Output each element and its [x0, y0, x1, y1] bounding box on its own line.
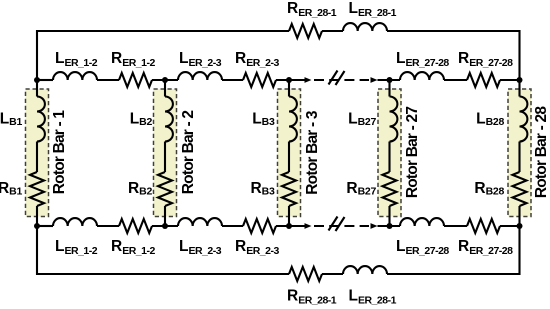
- svg-text:LB2: LB2: [130, 111, 153, 129]
- wire bottom rail: [500, 225, 520, 227]
- rotor bar 3 enclosure: [278, 89, 301, 217]
- svg-text:RER_28-1: RER_28-1: [287, 288, 337, 307]
- inductor L_ER_27-28 (bottom rail): [400, 218, 444, 226]
- resistor R_B3: [282, 172, 296, 206]
- wire top rail: [97, 79, 119, 81]
- node bar 2 bottom: [162, 223, 168, 229]
- node bar 28 top: [517, 77, 523, 83]
- wire bottom rail: [276, 225, 305, 227]
- rotor bar 2 enclosure: [154, 89, 177, 217]
- resistor R_B1: [30, 172, 44, 206]
- svg-text:LER_1-2: LER_1-2: [55, 50, 98, 69]
- wire rotor bar 1 middle: [36, 142, 38, 173]
- node bar 27 top: [387, 77, 393, 83]
- arrow bottom rail break left: [305, 223, 312, 229]
- svg-text:LB3: LB3: [252, 111, 275, 129]
- svg-text:LER_2-3: LER_2-3: [179, 50, 222, 69]
- inductor L_ER_27-28 (top rail): [400, 72, 444, 80]
- wire bottom rail: [152, 225, 178, 227]
- break marks bottom rail: [329, 217, 345, 232]
- wire rotor bar 2 middle: [164, 142, 166, 173]
- rotor bar 1 enclosure: [26, 89, 49, 217]
- inductor L_B3: [289, 97, 297, 142]
- svg-text:LER_27-28: LER_27-28: [396, 50, 449, 69]
- svg-text:RER_2-3: RER_2-3: [235, 238, 279, 257]
- node bar 1 bottom: [34, 223, 40, 229]
- inductor L_ER_2-3 (bottom rail): [178, 218, 222, 226]
- wire rotor bar 3 top lead: [288, 80, 290, 97]
- node bar 3 top: [286, 77, 292, 83]
- wire top rail node1 to L_ER_1-2: [37, 79, 53, 81]
- rotor bar 27 enclosure: [378, 89, 401, 217]
- svg-text:RB3: RB3: [250, 180, 274, 198]
- wire top rail to node 27: [378, 79, 401, 81]
- arrow bottom rail break right: [371, 223, 378, 229]
- resistor R_ER_28-1 (top outer): [289, 24, 322, 38]
- wire top outer: left vertical and top run: [37, 31, 289, 80]
- wire top outer: right run and right vertical: [387, 31, 520, 80]
- svg-text:RB28: RB28: [474, 180, 504, 198]
- svg-text:RER_1-2: RER_1-2: [111, 50, 155, 69]
- inductor L_B28: [520, 97, 528, 142]
- wire dashed top rail break: [314, 79, 369, 81]
- wire bottom rail: [97, 225, 119, 227]
- rotor bar 28 enclosure: [508, 89, 531, 217]
- svg-text:LER_27-28: LER_27-28: [396, 238, 449, 257]
- wire rotor bar 3 middle: [288, 142, 290, 173]
- wire top rail: [152, 79, 178, 81]
- resistor R_ER_27-28 (top rail): [467, 73, 500, 87]
- wire bottom outer: left vertical and bottom run: [37, 226, 289, 274]
- resistor R_ER_27-28 (bottom rail): [467, 219, 500, 233]
- arrow top rail break right: [371, 77, 378, 83]
- wire rotor bar 1 top lead: [36, 80, 38, 97]
- inductor L_B1: [37, 97, 45, 142]
- resistor R_ER_1-2 (bottom rail): [119, 219, 152, 233]
- wire bottom outer between resistor and inductor: [322, 273, 343, 275]
- svg-text:RER_1-2: RER_1-2: [111, 238, 155, 257]
- svg-text:RB27: RB27: [346, 180, 376, 198]
- svg-text:RER_28-1: RER_28-1: [287, 0, 337, 19]
- inductor L_ER_1-2 (bottom rail): [53, 218, 97, 226]
- wire bottom rail node1 to L_ER_1-2: [37, 225, 53, 227]
- wire top rail: [222, 79, 243, 81]
- break marks top rail: [329, 71, 345, 86]
- wire rotor bar 28 top lead: [518, 80, 520, 97]
- node bar 27 bottom: [387, 223, 393, 229]
- wire rotor bar 2 bottom lead: [164, 206, 166, 226]
- wire rotor bar 27 top lead: [388, 80, 390, 97]
- wire rotor bar 2 top lead: [164, 80, 166, 97]
- svg-text:Rotor Bar - 1: Rotor Bar - 1: [51, 110, 68, 195]
- wire top rail: [500, 79, 520, 81]
- wire bottom rail: [444, 225, 467, 227]
- svg-text:Rotor Bar - 2: Rotor Bar - 2: [180, 111, 197, 195]
- node bar 2 top: [162, 77, 168, 83]
- svg-text:LER_2-3: LER_2-3: [179, 238, 222, 257]
- node bar 1 top: [34, 77, 40, 83]
- svg-text:Rotor Bar - 28: Rotor Bar - 28: [533, 106, 550, 198]
- inductor L_B2: [165, 97, 173, 142]
- wire top outer between resistor and inductor: [322, 30, 343, 32]
- resistor R_ER_2-3 (bottom rail): [243, 219, 276, 233]
- wire rotor bar 28 bottom lead: [518, 206, 520, 226]
- wire bottom outer: right run and right vertical: [387, 226, 520, 274]
- wire rotor bar 1 bottom lead: [36, 206, 38, 226]
- svg-text:LB1: LB1: [0, 111, 22, 129]
- svg-text:Rotor Bar - 27: Rotor Bar - 27: [404, 107, 421, 198]
- svg-text:RER_27-28: RER_27-28: [458, 238, 513, 257]
- resistor R_B28: [513, 172, 527, 206]
- inductor L_ER_1-2 (top rail): [53, 72, 97, 80]
- resistor R_ER_28-1 (bottom outer): [289, 267, 322, 281]
- wire rotor bar 28 middle: [518, 142, 520, 173]
- svg-text:LER_28-1: LER_28-1: [349, 0, 397, 19]
- inductor L_ER_2-3 (top rail): [178, 72, 222, 80]
- wire top rail: [276, 79, 305, 81]
- wire bottom rail to node 27: [378, 225, 401, 227]
- arrow top rail break left: [305, 77, 312, 83]
- wire rotor bar 3 bottom lead: [288, 206, 290, 226]
- svg-text:LB28: LB28: [476, 111, 504, 129]
- wire bottom rail: [222, 225, 243, 227]
- svg-text:RB2: RB2: [128, 180, 152, 198]
- svg-text:RER_27-28: RER_27-28: [458, 50, 513, 69]
- resistor R_ER_1-2 (top rail): [119, 73, 152, 87]
- svg-text:LER_1-2: LER_1-2: [55, 238, 98, 257]
- svg-text:RB1: RB1: [0, 180, 22, 198]
- node bar 3 bottom: [286, 223, 292, 229]
- inductor L_ER_28-1 (top outer): [343, 23, 387, 31]
- wire rotor bar 27 middle: [388, 142, 390, 173]
- svg-text:Rotor Bar - 3: Rotor Bar - 3: [304, 110, 321, 195]
- node bar 28 bottom: [517, 223, 523, 229]
- svg-text:LB27: LB27: [348, 111, 376, 129]
- resistor R_B27: [383, 172, 397, 206]
- wire dashed bottom rail break: [314, 225, 369, 227]
- inductor L_ER_28-1 (bottom outer): [343, 266, 387, 274]
- resistor R_B2: [158, 172, 172, 206]
- svg-text:LER_28-1: LER_28-1: [349, 288, 397, 307]
- wire top rail: [444, 79, 467, 81]
- svg-text:RER_2-3: RER_2-3: [235, 50, 279, 69]
- wire rotor bar 27 bottom lead: [388, 206, 390, 226]
- resistor R_ER_2-3 (top rail): [243, 73, 276, 87]
- inductor L_B27: [390, 97, 398, 142]
